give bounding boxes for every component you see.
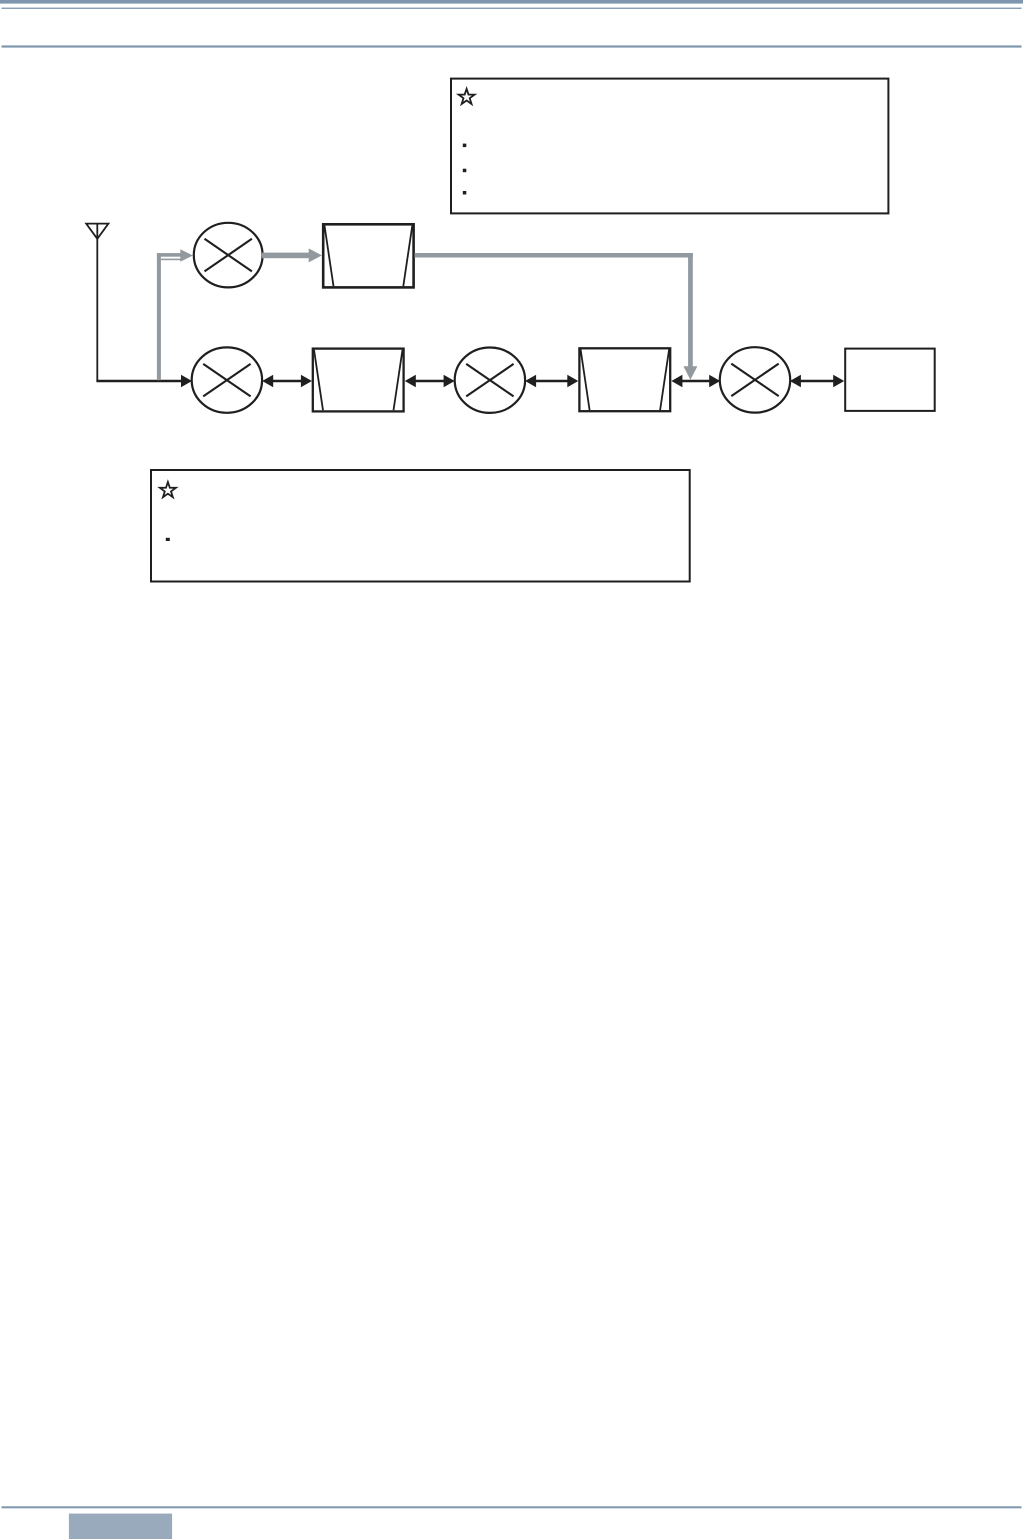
wire F1 to junction horizontal (gray) <box>415 253 693 258</box>
footer label block <box>69 1514 172 1539</box>
note N1 star icon <box>459 89 475 104</box>
header bottom rule <box>2 45 1022 47</box>
mixer M1 (circle with X) <box>194 223 263 288</box>
filter F1 (band-pass filter box) <box>323 224 413 287</box>
note box N2 <box>151 470 690 582</box>
wire LO path left horizontal arrow into mixer M1 (gray) <box>157 249 193 262</box>
wire F3-M4 (bidirectional arrow) <box>671 375 720 388</box>
wire LO path left vertical (gray) <box>157 253 161 380</box>
note N2 star icon <box>160 482 176 497</box>
wire M3-F3 (bidirectional arrow) <box>525 375 578 388</box>
note N1 bullet 1 <box>463 144 467 148</box>
note box N1 <box>451 79 888 214</box>
filter F2 (band-pass filter box) <box>313 349 404 412</box>
note N2 bullet <box>166 538 170 541</box>
block OUT (output box) <box>845 349 935 411</box>
wire M2-F2 (bidirectional arrow) <box>262 375 312 388</box>
wire antenna feed <box>96 375 192 388</box>
note N1 bullet 3 <box>463 191 467 195</box>
wire M4-OUT (bidirectional arrow) <box>790 375 844 388</box>
antenna ANT1 <box>86 224 108 381</box>
mixer M4 (circle with X) <box>720 347 790 412</box>
header thin rule <box>2 8 1022 9</box>
note N1 bullet 2 <box>463 169 467 173</box>
wire M1 to F1 (gray arrow) <box>262 248 322 262</box>
wire junction vertical drop (gray) <box>683 253 697 380</box>
mixer M2 (circle with X) <box>192 347 262 412</box>
footer rule <box>2 1506 1022 1508</box>
mixer M3 (circle with X) <box>455 348 525 413</box>
wire F2-M3 (bidirectional arrow) <box>405 375 455 388</box>
filter F3 (band-pass filter box) <box>579 348 670 411</box>
header top bar <box>0 0 1023 4</box>
